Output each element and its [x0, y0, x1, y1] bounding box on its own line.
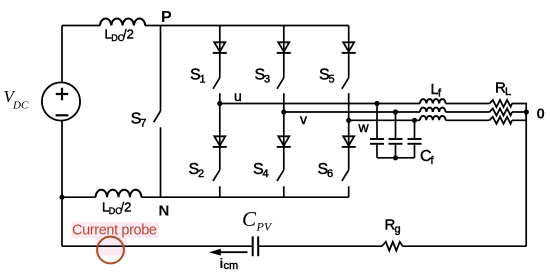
- label Rg: [385, 217, 401, 236]
- wire bottom bus N right: [141, 196, 348, 198]
- wire phase w line: [349, 119, 420, 121]
- resistor RL-w: [490, 117, 513, 124]
- svg-text:7: 7: [140, 118, 146, 130]
- leg 1 upper wire: [219, 26, 221, 78]
- wire Cf star bus: [377, 157, 415, 159]
- label V_DC: [4, 87, 29, 112]
- highlight box behind probe circle: [96, 238, 127, 256]
- wire S6 stub: [348, 186, 350, 197]
- node u dot: [217, 101, 222, 106]
- wire v to node 0: [512, 111, 526, 113]
- wire v after Lf: [446, 111, 490, 113]
- wire w to node 0: [512, 112, 526, 120]
- diode D4: [277, 136, 291, 147]
- diode D5: [342, 42, 356, 53]
- node w dot: [346, 118, 351, 123]
- inductor L_DC/2 (bottom): [96, 190, 142, 197]
- svg-text:/2: /2: [123, 27, 134, 42]
- source V_DC: [42, 82, 80, 120]
- inductor Lf-v: [420, 108, 446, 112]
- capacitor C_PV: [253, 236, 259, 256]
- capacitor Cf-w: [408, 120, 422, 158]
- resistor RL-v: [490, 109, 513, 116]
- label S3: [255, 67, 271, 86]
- leg 3 upper wire: [348, 26, 350, 78]
- wire bottom bus N left: [62, 196, 96, 198]
- wire S4 stub: [283, 186, 285, 197]
- label L_DC/2 (bottom): [102, 200, 131, 217]
- svg-text:/2: /2: [121, 200, 132, 215]
- node 0 dot: [524, 109, 529, 114]
- junction dot v-Cf: [393, 109, 398, 114]
- svg-text:2: 2: [198, 168, 204, 180]
- wire S5 to node w: [348, 93, 350, 120]
- label S6: [318, 161, 334, 180]
- leg 2 mid wire: [283, 112, 285, 170]
- arrow i_cm: [209, 249, 248, 256]
- svg-text:DC: DC: [12, 100, 29, 112]
- svg-text:PV: PV: [256, 220, 273, 234]
- capacitor Cf-v: [389, 112, 403, 158]
- wire left vertical bottom: [61, 121, 63, 198]
- junction dot left: [59, 195, 64, 200]
- wire top bus right: [145, 25, 349, 27]
- svg-text:6: 6: [327, 168, 333, 180]
- diode D6: [342, 136, 356, 147]
- svg-text:1: 1: [200, 74, 206, 86]
- svg-text:3: 3: [264, 74, 270, 86]
- inductor Lf-u: [420, 99, 446, 103]
- wire right riser: [525, 112, 527, 246]
- label i_cm: [220, 255, 239, 272]
- wire u after Lf: [446, 103, 490, 105]
- wire S1 to node u: [219, 93, 221, 103]
- switch S5 blade: [342, 78, 349, 89]
- diode D1: [213, 42, 227, 53]
- inductor Lf-w: [420, 116, 446, 120]
- label S4: [253, 161, 269, 180]
- node v dot: [281, 109, 286, 114]
- leg 2 upper wire: [283, 26, 285, 78]
- resistor RL-u: [490, 100, 513, 107]
- label L_DC/2 (top): [105, 27, 134, 44]
- leg 1 mid wire: [219, 104, 221, 170]
- svg-text:v: v: [300, 111, 307, 127]
- svg-text:C: C: [242, 207, 257, 231]
- highlight box behind Current probe text: [72, 222, 160, 238]
- svg-text:0: 0: [537, 105, 545, 122]
- svg-text:L: L: [505, 86, 511, 98]
- wire u to node 0: [512, 104, 526, 113]
- switch S7: [154, 26, 161, 198]
- svg-text:u: u: [234, 88, 242, 104]
- svg-text:cm: cm: [224, 260, 239, 272]
- capacitor Cf-u: [370, 104, 384, 158]
- svg-text:Current probe: Current probe: [72, 223, 157, 239]
- wire bottom rail right: [403, 245, 527, 247]
- svg-text:g: g: [395, 224, 401, 236]
- wire bottom rail mid: [259, 245, 382, 247]
- wire left drop to bottom rail: [61, 197, 63, 246]
- svg-text:P: P: [161, 9, 172, 26]
- resistor Rg: [382, 242, 403, 251]
- switch S6 blade: [342, 170, 349, 181]
- switch S3 blade: [277, 78, 284, 89]
- svg-text:5: 5: [329, 74, 335, 86]
- wire top bus left: [62, 25, 100, 27]
- svg-text:4: 4: [263, 168, 269, 180]
- label C_PV: [242, 207, 273, 234]
- svg-text:N: N: [159, 203, 170, 220]
- junction dot w-Cf: [412, 118, 417, 123]
- current probe circle: [97, 237, 124, 264]
- wire phase u line: [220, 103, 420, 105]
- leg 3 mid wire: [348, 120, 350, 170]
- label Lf: [431, 81, 443, 100]
- switch S1 blade: [213, 78, 220, 89]
- diode D3: [277, 42, 291, 53]
- label S1: [190, 67, 206, 86]
- svg-text:w: w: [358, 119, 370, 135]
- inductor L_DC/2 (top): [100, 19, 145, 26]
- switch S2 blade: [213, 170, 220, 181]
- wire w after Lf: [446, 119, 490, 121]
- wire S2 stub: [219, 186, 221, 197]
- wire left vertical top: [61, 26, 63, 83]
- label RL: [495, 80, 511, 99]
- label S5: [319, 67, 335, 86]
- wire phase v line: [284, 111, 420, 113]
- label Cf: [420, 148, 435, 167]
- wire bottom rail left: [62, 245, 252, 247]
- wire S3 to node v: [283, 93, 285, 112]
- label S7: [131, 111, 147, 130]
- diode D2: [213, 136, 227, 147]
- label S2: [189, 161, 205, 180]
- junction dot Cf star: [393, 155, 398, 160]
- switch S4 blade: [277, 170, 284, 181]
- junction dot u-Cf: [374, 101, 379, 106]
